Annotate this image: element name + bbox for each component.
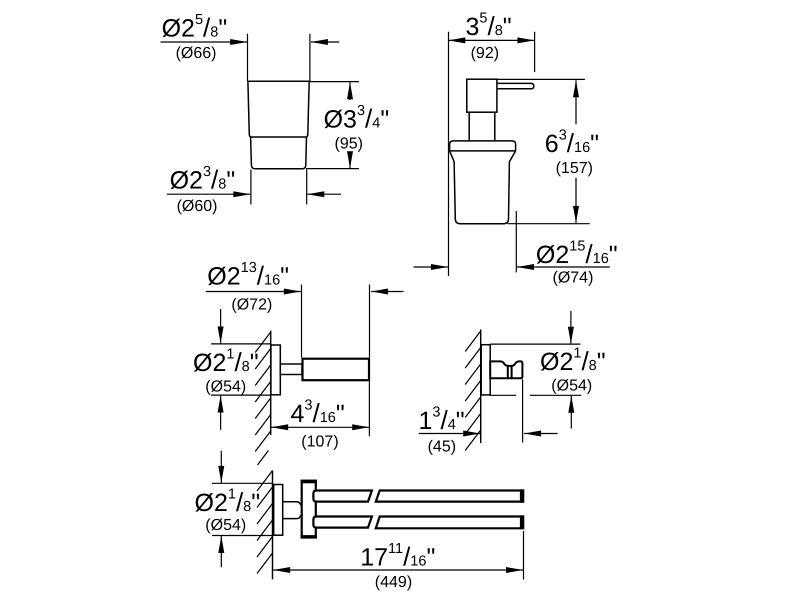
dimension Ø66 line right xyxy=(311,41,339,43)
dimension Ø74 arrow left-pointing xyxy=(517,264,534,270)
dimension 157 extension line top xyxy=(497,78,585,80)
tumbler upper body xyxy=(248,81,309,137)
dispenser pump stem xyxy=(469,112,495,141)
svg-text:Ø23/8": Ø23/8" xyxy=(170,164,236,195)
svg-text:(Ø60): (Ø60) xyxy=(177,198,218,215)
dimension Ø74 extension line right xyxy=(515,211,517,272)
svg-text:(Ø54): (Ø54) xyxy=(205,379,246,396)
dimension Ø54 (hook) extension line bottom left part xyxy=(490,394,516,396)
dimension Ø54 (towel bar) upper line xyxy=(220,451,222,483)
dimension Ø54 (holder) arrow up-pointing xyxy=(218,396,224,413)
svg-text:Ø21/8": Ø21/8" xyxy=(193,347,259,378)
towel bar lower arm right segment xyxy=(376,517,521,529)
svg-text:(92): (92) xyxy=(471,45,499,62)
dimension Ø54 (towel bar) extension line bottom xyxy=(212,535,272,537)
svg-text:Ø21/8": Ø21/8" xyxy=(540,346,606,377)
dimension Ø54 (holder) upper line xyxy=(220,309,222,344)
holder rod xyxy=(303,359,370,381)
dispenser flange bottom line xyxy=(450,150,516,152)
dimension 107 line xyxy=(271,426,369,428)
wall line xyxy=(272,471,274,580)
dimension 92 extension line right xyxy=(534,32,536,72)
dimension Ø60 line right xyxy=(307,193,341,195)
tumbler shoulder ledge xyxy=(251,137,307,169)
dimension Ø54 (holder) arrow down-pointing xyxy=(218,327,224,344)
towel bar upper arm left segment xyxy=(313,491,372,502)
dimension Ø54 (holder) extension line top xyxy=(211,343,270,345)
wall hatching xyxy=(257,471,273,574)
svg-text:(449): (449) xyxy=(375,574,412,591)
dimension 449 line xyxy=(273,569,523,571)
hook knob outline xyxy=(490,361,522,378)
towel bar lower arm left segment xyxy=(313,517,372,528)
dimension Ø72 arrow left-pointing xyxy=(371,289,388,295)
dimension 45 extension line right xyxy=(522,379,524,442)
dimension 95 arrow up-pointing xyxy=(347,82,353,99)
dimension Ø72 arrow right-pointing xyxy=(284,289,301,295)
towel bar lower arm end cap xyxy=(520,515,524,529)
dimension 107 extension line right xyxy=(368,381,370,436)
dimension Ø72 extension line right xyxy=(369,285,371,358)
holder stem xyxy=(280,364,302,375)
dimension Ø54 (hook) arrow down-pointing xyxy=(568,327,574,344)
dimension Ø54 (holder) lower line xyxy=(220,396,222,430)
svg-text:(Ø54): (Ø54) xyxy=(551,377,592,394)
towel bar upper arm right segment xyxy=(376,491,521,502)
svg-text:43/16": 43/16" xyxy=(291,398,345,429)
dimension 95 extension line top xyxy=(309,81,359,83)
dimension Ø66 leader line left xyxy=(161,41,248,43)
dimension 157 line lower xyxy=(575,178,577,223)
wall line xyxy=(270,331,272,435)
towel bar hub top cap xyxy=(301,480,317,484)
dimension Ø54 (towel bar) extension line top xyxy=(212,482,272,484)
svg-text:Ø33/4": Ø33/4" xyxy=(324,103,390,133)
dispenser bottle body xyxy=(450,151,516,224)
dimension Ø54 (hook) lower line xyxy=(570,396,572,429)
svg-text:(Ø54): (Ø54) xyxy=(205,517,246,534)
dimension Ø74 arrow right-pointing xyxy=(431,264,448,270)
svg-text:63/16": 63/16" xyxy=(545,128,599,159)
svg-text:Ø25/8": Ø25/8" xyxy=(162,12,228,43)
dimension Ø54 (towel bar) arrow down-pointing xyxy=(218,466,224,483)
dimension 45 arrow right-pointing xyxy=(463,431,480,437)
dimension Ø54 (hook) upper line xyxy=(570,311,572,344)
dimension 45 leader line left xyxy=(419,433,480,435)
wall hatching xyxy=(465,331,481,451)
towel bar wall plate xyxy=(274,485,283,536)
dispenser spout xyxy=(497,83,534,88)
hook wall plate xyxy=(481,345,490,395)
dimension 449 extension line right xyxy=(523,531,525,580)
svg-text:(107): (107) xyxy=(301,434,338,451)
dimension 449 arrow right-end xyxy=(506,567,523,573)
dimension Ø54 (holder) extension line bottom xyxy=(211,394,270,396)
dimension Ø60 extension line right xyxy=(306,170,308,205)
dimension Ø66 extension line left xyxy=(247,34,249,81)
dimension Ø66 arrow right-pointing xyxy=(230,39,247,45)
dimension 45 line right xyxy=(524,433,558,435)
dimension 107 arrow left-end xyxy=(271,424,288,430)
dimension Ø54 (hook) arrow up-pointing xyxy=(568,396,574,413)
dimension Ø54 (hook) extension line bottom right part xyxy=(530,394,581,396)
towel bar upper arm end cap xyxy=(520,489,524,503)
svg-text:(Ø72): (Ø72) xyxy=(231,297,272,314)
dimension 157 arrow down-pointing xyxy=(573,206,579,223)
holder wall plate xyxy=(271,345,280,395)
svg-text:(Ø66): (Ø66) xyxy=(176,45,217,62)
dimension Ø60 leader line left xyxy=(167,193,251,195)
dispenser bottle flange xyxy=(450,141,516,151)
svg-text:(95): (95) xyxy=(335,136,363,153)
dimension 95 extension line bottom xyxy=(306,168,359,170)
dimension Ø72 line right xyxy=(371,291,403,293)
dimension 92 arrow right-end xyxy=(517,37,534,43)
svg-text:Ø21/8": Ø21/8" xyxy=(195,486,261,517)
dimension 157 line upper xyxy=(575,80,577,124)
dimension 157 arrow up-pointing xyxy=(573,80,579,97)
dimension 45 arrow left-pointing xyxy=(524,431,541,437)
dimension 157 extension line bottom xyxy=(508,223,590,225)
dimension Ø60 arrow right-pointing xyxy=(233,191,250,197)
dimension Ø74 line left xyxy=(414,266,449,268)
dimension 95 arrow down-pointing xyxy=(347,151,353,168)
svg-text:(157): (157) xyxy=(556,160,593,177)
dimension Ø72 extension line left xyxy=(301,285,303,358)
svg-text:35/8": 35/8" xyxy=(466,11,512,42)
svg-text:(Ø74): (Ø74) xyxy=(553,269,594,286)
dimension 92 extension line left (shared with Ø74) xyxy=(448,32,450,276)
dimension Ø54 (hook) extension line top xyxy=(490,343,580,345)
hook knob stem lines xyxy=(508,367,512,378)
dispenser pump head xyxy=(467,79,497,112)
dimension Ø66 extension line right xyxy=(309,34,311,81)
dimension Ø54 (towel bar) arrow up-pointing xyxy=(218,536,224,553)
dimension Ø60 extension line left xyxy=(250,170,252,205)
dimension Ø66 arrow left-pointing xyxy=(311,39,328,45)
dimension 95 line lower xyxy=(349,152,351,169)
svg-text:13/4": 13/4" xyxy=(419,405,465,436)
towel bar hub xyxy=(302,481,316,538)
towel bar hub bottom cap xyxy=(301,535,317,539)
dimension 107 arrow right-end xyxy=(352,424,369,430)
dimension Ø54 (towel bar) lower line xyxy=(220,536,222,567)
wall hatching xyxy=(255,332,271,465)
dimension 92 line xyxy=(448,39,534,41)
dimension Ø74 line right xyxy=(517,266,610,268)
wall line xyxy=(480,330,482,444)
svg-text:(45): (45) xyxy=(428,438,456,455)
dimension 95 line upper xyxy=(349,82,351,100)
dimension Ø72 leader line left xyxy=(206,291,301,293)
dimension 449 arrow left-end xyxy=(273,567,290,573)
dimension 92 arrow left-end xyxy=(448,37,465,43)
dimension Ø60 arrow left-pointing xyxy=(307,191,324,197)
towel bar stem xyxy=(283,502,302,519)
